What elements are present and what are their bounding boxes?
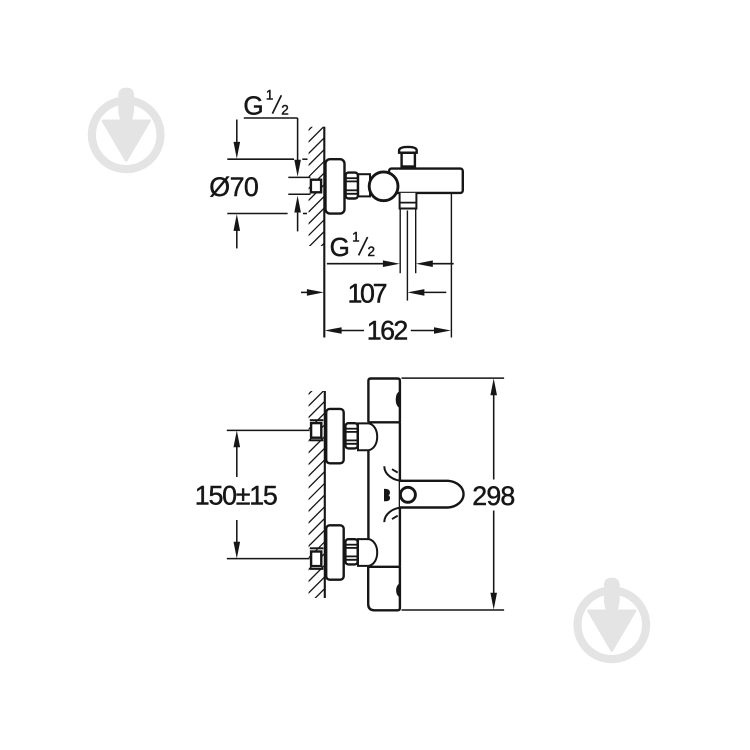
svg-text:107: 107 (348, 278, 388, 308)
svg-text:298: 298 (472, 481, 515, 511)
diverter knob circle (top view) (400, 487, 415, 502)
svg-text:1: 1 (266, 88, 274, 103)
connection nut (side view) (346, 173, 358, 199)
svg-text:2: 2 (368, 244, 376, 259)
lower nut (top view) (345, 539, 357, 564)
upper inlet boss (top view) (358, 423, 377, 450)
lower escutcheon (top view) (326, 525, 344, 579)
lower inlet boss (top view) (358, 539, 377, 566)
svg-text:1: 1 (352, 229, 360, 244)
body bottom section (top view) (368, 567, 400, 611)
handle bump upper (top view) (396, 391, 400, 408)
svg-text:2: 2 (281, 102, 289, 117)
dimension 162 (341, 330, 435, 332)
svg-text:162: 162 (367, 316, 409, 346)
dimension G1/2 (outlet) (327, 263, 454, 265)
handle lever blob (top view) (384, 489, 390, 501)
dimension G1/2 (top label) (244, 118, 298, 231)
svg-text:G: G (243, 90, 263, 120)
spout base fillet bottom (top view) (384, 508, 403, 523)
watermark logo top-left (92, 88, 161, 170)
supply pipe in wall (side view) (288, 176, 310, 178)
upper nut (top view) (345, 423, 357, 448)
lower supply pipe (top view) (310, 548, 324, 569)
upper escutcheon (top view) (326, 409, 344, 463)
svg-text:Ø70: Ø70 (209, 172, 258, 202)
outlet centerline (406, 211, 408, 301)
wall line (side view) + extension to 162 dim (323, 127, 325, 338)
dimension 298 (402, 378, 505, 610)
connector tube (side view) (358, 174, 370, 196)
shower outlet (side view) (400, 193, 417, 209)
wall line (top view) (324, 391, 326, 598)
dimension 107 (301, 291, 446, 293)
spout body bar (side view) (389, 169, 463, 193)
svg-text:G: G (330, 232, 350, 262)
diverter knob (side view) (399, 147, 417, 170)
G 1/2 label text (top) (243, 88, 288, 121)
dimension 150±15 (227, 430, 310, 558)
extension line right (162) (450, 194, 452, 338)
watermark logo bottom-right (578, 578, 647, 660)
upper supply pipe (top view) (310, 420, 324, 440)
dimension Ø70 (227, 120, 307, 249)
body middle section (top view) (367, 450, 369, 539)
handle bump lower (top view) (396, 584, 399, 598)
flange escutcheon (side view) (326, 159, 345, 213)
body top section (top view) (368, 379, 400, 423)
handle circle (side view) (369, 172, 398, 201)
G 1/2 label text (outlet) (330, 229, 375, 262)
wall hatching (top view) (296, 367, 336, 641)
shower outlet extension lines (399, 209, 401, 274)
spout base fillet top (top view) (384, 466, 403, 481)
wall hatching (side view) (296, 91, 336, 283)
spout (top view) (400, 481, 464, 508)
svg-text:150±15: 150±15 (195, 481, 278, 511)
